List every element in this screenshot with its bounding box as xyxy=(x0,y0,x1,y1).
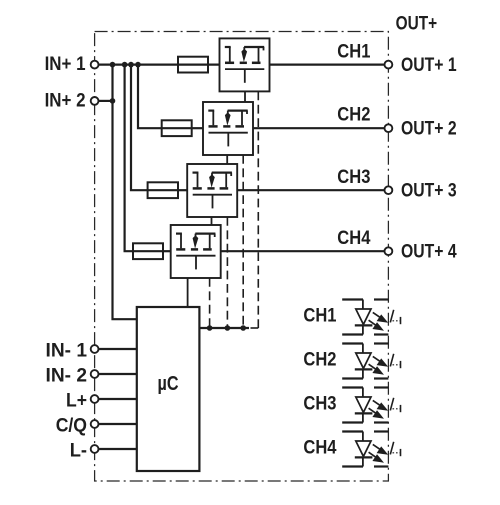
wire gate Q3 to Q4 xyxy=(211,217,213,225)
wire fuse F2 to Q2 xyxy=(192,127,203,129)
svg-text:IN+ 1: IN+ 1 xyxy=(45,54,86,75)
svg-text:CH2: CH2 xyxy=(303,350,336,371)
terminal OUT+1 xyxy=(385,61,393,69)
fuse F2 xyxy=(162,120,192,136)
wire CH1 output xyxy=(270,63,385,65)
terminal OUT+4 xyxy=(385,247,393,255)
svg-text:OUT+ 4: OUT+ 4 xyxy=(401,242,457,263)
terminal OUT+2 xyxy=(385,124,393,132)
transistor Q3 xyxy=(187,164,237,217)
wire L- pin xyxy=(99,448,137,450)
LED indicator CH4 xyxy=(342,432,400,467)
enclosure border (dash-dot) xyxy=(95,32,389,482)
transistor Q4 xyxy=(171,225,221,278)
wire feed vertical CH4 xyxy=(125,65,133,252)
wire CH4 output xyxy=(221,250,385,252)
junction dots on IN+ rail xyxy=(110,62,116,68)
wire gate Q2 to Q3 xyxy=(226,155,228,164)
svg-text:CH1: CH1 xyxy=(337,42,370,63)
svg-text:CH1: CH1 xyxy=(303,306,336,327)
svg-text:OUT+ 1: OUT+ 1 xyxy=(401,55,457,76)
dashed sense line Q4 xyxy=(209,278,211,328)
svg-text:OUT+ 3: OUT+ 3 xyxy=(401,181,457,202)
junction dots on sense bus xyxy=(207,325,213,331)
terminal IN-2 xyxy=(91,370,99,378)
svg-text:CH3: CH3 xyxy=(337,167,370,188)
wire L+ pin xyxy=(99,398,137,400)
svg-text:CH4: CH4 xyxy=(337,228,370,249)
fuse F1 xyxy=(178,57,208,73)
svg-text:CH2: CH2 xyxy=(337,105,370,126)
dashed sense line Q2 xyxy=(242,155,244,328)
fuse F3 xyxy=(148,182,178,198)
svg-text:OUT+ 2: OUT+ 2 xyxy=(401,119,457,140)
LED indicator CH1 xyxy=(342,300,400,335)
wire gate Q4 to uC xyxy=(187,278,189,307)
transistor Q2 xyxy=(203,102,253,155)
wire supply vertical to uC xyxy=(113,65,137,320)
transistor Q1 xyxy=(220,38,270,91)
wire IN-2 pin xyxy=(99,373,137,375)
wire fuse F4 to Q4 xyxy=(163,250,171,252)
dashed sense bus corner xyxy=(251,327,259,329)
terminal IN+2 xyxy=(91,97,99,105)
LED indicator CH2 xyxy=(342,344,400,379)
fuse F4 xyxy=(133,243,163,259)
wire IN-1 pin xyxy=(99,348,137,350)
svg-text:CH4: CH4 xyxy=(303,438,336,459)
terminal C/Q xyxy=(91,420,99,428)
svg-text:CH3: CH3 xyxy=(303,394,336,415)
wire IN+2 horizontal to junction xyxy=(99,100,113,102)
terminal OUT+3 xyxy=(385,186,393,194)
dashed sense line Q1 xyxy=(257,91,259,328)
svg-text:L-: L- xyxy=(70,440,87,461)
terminal IN+1 xyxy=(91,61,99,69)
svg-text:IN- 2: IN- 2 xyxy=(46,365,88,386)
svg-text:OUT+: OUT+ xyxy=(396,13,438,34)
LED indicator CH3 xyxy=(342,388,400,423)
wire feed vertical CH2 xyxy=(138,65,162,129)
wire IN+1 horizontal to fuse F1 xyxy=(99,63,220,65)
svg-text:L+: L+ xyxy=(66,390,87,411)
wire gate Q1 to Q2 xyxy=(244,91,246,102)
terminal IN-1 xyxy=(91,345,99,353)
microcontroller U1 xyxy=(137,307,200,471)
svg-text:IN+ 2: IN+ 2 xyxy=(45,91,86,112)
wire sense bus to uC xyxy=(199,327,249,329)
svg-text:µC: µC xyxy=(158,373,179,395)
wire feed vertical CH3 xyxy=(131,65,148,191)
terminal L+ xyxy=(91,395,99,403)
wire CH3 output xyxy=(237,189,384,191)
dashed sense line Q3 xyxy=(226,217,228,328)
junction dot IN+2 xyxy=(110,98,116,104)
svg-text:IN- 1: IN- 1 xyxy=(46,340,88,361)
svg-text:C/Q: C/Q xyxy=(56,415,87,436)
wire CH2 output xyxy=(253,127,384,129)
wire fuse F3 to Q3 xyxy=(178,189,187,191)
wire C/Q pin xyxy=(99,423,137,425)
terminal L- xyxy=(91,445,99,453)
